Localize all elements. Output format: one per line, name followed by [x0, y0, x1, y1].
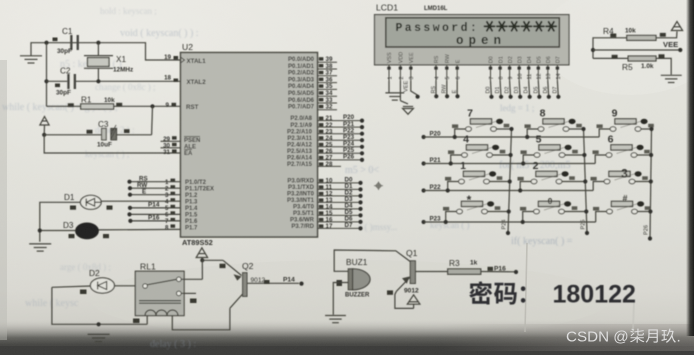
wire P1.5 stub — [130, 213, 181, 215]
wire P1.1 RW net — [130, 187, 181, 189]
resistor R3 1k — [415, 258, 518, 274]
LCD1 LMD16L display module — [375, 3, 570, 65]
U2 P2 port labels and pins — [287, 114, 364, 168]
IC U2 AT89S52 microcontroller — [181, 42, 318, 247]
switch keypad button 8 (row P20, col P25) — [525, 107, 586, 139]
wire P1.6 P16 net — [130, 220, 180, 222]
node junction VCC/Q2 — [200, 258, 204, 262]
power VCC down-arrow (LCD VDD) — [400, 81, 413, 114]
U2 left pin numbers — [161, 54, 181, 232]
wire LCD D2 net — [505, 81, 513, 99]
wire LCD D4 net — [524, 81, 532, 99]
ground (LCD VSS) — [385, 93, 404, 100]
ground (relay section) — [88, 334, 110, 341]
switch keypad button 5 (row P21, col P25) — [521, 133, 587, 165]
transistor Q2 9012 PNP — [202, 260, 303, 308]
switch keypad button 9 (row P20, col P26) — [597, 107, 654, 137]
wire VEE output — [591, 40, 683, 52]
U2 P0 port labels and pins — [288, 56, 337, 111]
switch keypad button 2 (row P22, col P25) — [518, 160, 588, 193]
wire keypad row P21 — [422, 157, 596, 166]
watermark CSDN — [566, 329, 681, 346]
wire - rail to EA pin 31 — [44, 135, 180, 153]
wire keypad column P26 — [644, 129, 653, 241]
diode D2 LED — [52, 268, 135, 294]
wire relay coil left leg — [146, 316, 148, 325]
wire LCD D0 net — [486, 81, 494, 99]
wire LCD VEE net — [404, 81, 420, 99]
svg-text:CSDN @: CSDN @ — [566, 329, 629, 346]
wire LCD RW net — [442, 81, 450, 98]
wire - left rail C1 to R1 — [46, 43, 48, 107]
wire D1 to rail — [40, 202, 81, 242]
switch keypad button star (row P23, col P24) — [443, 193, 511, 224]
U2 P3 port labels and pins — [287, 177, 363, 231]
wire - C2 to XTAL2 pin 18 — [76, 80, 181, 82]
wire keypad row P22 — [422, 184, 594, 193]
node junction X1 top — [96, 41, 100, 45]
node junction C2 left — [44, 79, 48, 83]
power VCC arrow (relay/Q2) — [196, 248, 207, 260]
wire keypad row P23 — [422, 216, 596, 225]
node junction RST/C3 — [150, 104, 154, 108]
diode D1 LED — [64, 193, 113, 210]
switch keypad button hash (row P23, col P26) — [593, 194, 653, 223]
power VCC arrow (C3 rail) — [40, 117, 49, 135]
svg-text:.: . — [677, 329, 681, 346]
wire LCD E net — [452, 81, 460, 98]
wire LCD D3 net — [514, 81, 522, 99]
node origin marker — [374, 182, 383, 191]
node junction C3 left — [42, 133, 46, 137]
wire P1.0 RS net — [130, 181, 181, 183]
switch keypad button 4 (row P21, col P24) — [448, 133, 513, 165]
wire - ground to C1/X1 top to XTAL1 pin 19 — [31, 43, 181, 60]
wire LCD D7 net — [552, 81, 560, 99]
ground (LED rail) — [29, 244, 51, 251]
ground (R5) — [661, 75, 682, 82]
wire buzzer left to ground — [333, 283, 348, 315]
node junction C1 top rail — [44, 41, 48, 45]
ground (buzzer) — [325, 316, 346, 323]
wire P1.4 P14 net — [130, 207, 181, 209]
wire LCD VSS to ground — [388, 81, 390, 93]
wire D2 branch — [52, 287, 147, 324]
diode D3 (dark LED) — [40, 221, 109, 239]
wire LCD RS net — [431, 81, 439, 98]
label password 180122 — [469, 281, 636, 309]
wire keypad column P24 — [502, 129, 512, 235]
capacitor C3 10uF — [44, 106, 152, 148]
node junction D3/rail — [38, 228, 42, 232]
resistor R4 10k — [593, 26, 677, 58]
wire LCD D5 net — [533, 81, 541, 99]
switch keypad button 0 (row P23, col P25) — [520, 197, 588, 224]
buzzer BUZ1 — [337, 257, 371, 299]
capacitor C1 — [53, 27, 79, 55]
resistor R1 10k — [47, 96, 181, 110]
U2 pin labels left — [181, 57, 215, 232]
wire keypad row P20 — [422, 131, 600, 140]
ground (crystal section) — [20, 56, 42, 63]
wire LCD D1 net — [495, 81, 503, 99]
switch keypad button 7 (row P20, col P24) — [452, 107, 514, 139]
power VCC arrow (R4) — [671, 22, 682, 31]
wire LCD D6 net — [543, 81, 551, 99]
wire P1.2 E net — [130, 194, 181, 196]
wire keypad column P25 — [581, 129, 590, 235]
switch keypad button 3 (row P22, col P26) — [591, 167, 653, 191]
wire buzzer to Q1 collector — [334, 250, 410, 271]
capacitor C2 — [47, 67, 77, 97]
resistor R5 1.0k — [593, 54, 671, 74]
switch keypad button 6 (row P21, col P26) — [593, 133, 654, 163]
power VCC arrow (Q1 emitter) — [407, 295, 420, 309]
wire P1.3 to D1 — [101, 200, 180, 202]
node junction ground bottom — [97, 322, 101, 326]
LCD pin stubs and numbers — [387, 65, 562, 81]
switch keypad button 1 (row P22, col P24) — [445, 160, 512, 193]
transistor Q1 9012 PNP — [387, 248, 419, 308]
wire P1.7 to D3 — [98, 228, 180, 231]
crystal X1 12MHz — [84, 43, 133, 82]
node junction X1 bottom — [96, 79, 100, 83]
wire relay coil right leg to collector — [172, 308, 230, 330]
wire VCC junction to relay NO contact — [201, 260, 203, 279]
relay RL1 — [135, 262, 202, 316]
